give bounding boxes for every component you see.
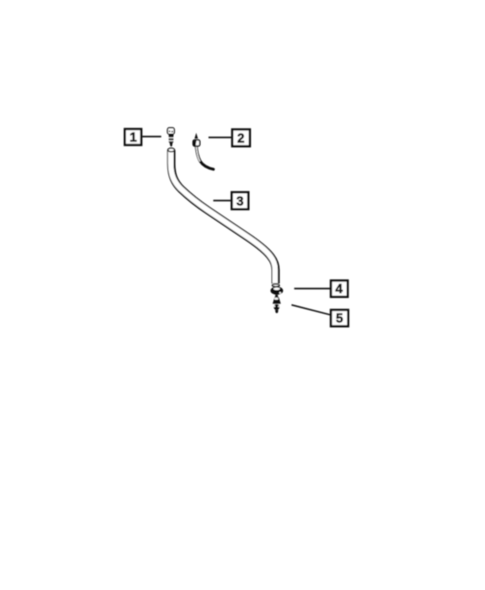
dipstick tube item 3 (S-shaped tube outline) [171,150,276,284]
leader line 3 [213,200,231,202]
push-pin fastener item 5 [273,295,281,313]
callout box 5 [331,310,348,326]
callout box 3 [232,192,249,209]
leader line 1 [142,136,161,138]
breather hose item 2 [193,133,213,169]
callout box 1 [125,129,141,145]
leader line 4 [294,288,330,290]
cap/plug item 1 [168,128,175,147]
svg-text:2: 2 [237,131,244,146]
callout box 4 [331,281,348,297]
tube bottom lip [272,284,279,286]
svg-text:3: 3 [236,193,243,208]
leader line 2 [209,136,232,138]
grommet item 4 [271,287,284,295]
leader line 5 [292,305,331,315]
tube top opening (open end of tube) [168,148,175,152]
svg-text:1: 1 [130,130,137,145]
callout box 2 [232,129,250,146]
svg-text:4: 4 [335,281,343,296]
svg-text:5: 5 [336,311,343,326]
